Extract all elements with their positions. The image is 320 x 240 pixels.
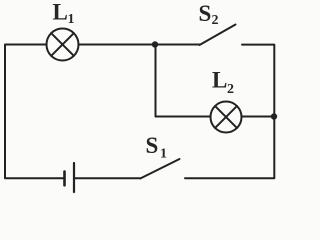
svg-text:L: L — [212, 68, 227, 93]
svg-text:S: S — [199, 1, 212, 26]
svg-text:2: 2 — [212, 13, 219, 28]
svg-text:L: L — [53, 0, 68, 25]
svg-text:S: S — [146, 133, 159, 158]
svg-text:2: 2 — [227, 82, 234, 97]
svg-text:1: 1 — [160, 147, 167, 162]
svg-text:1: 1 — [68, 12, 75, 27]
